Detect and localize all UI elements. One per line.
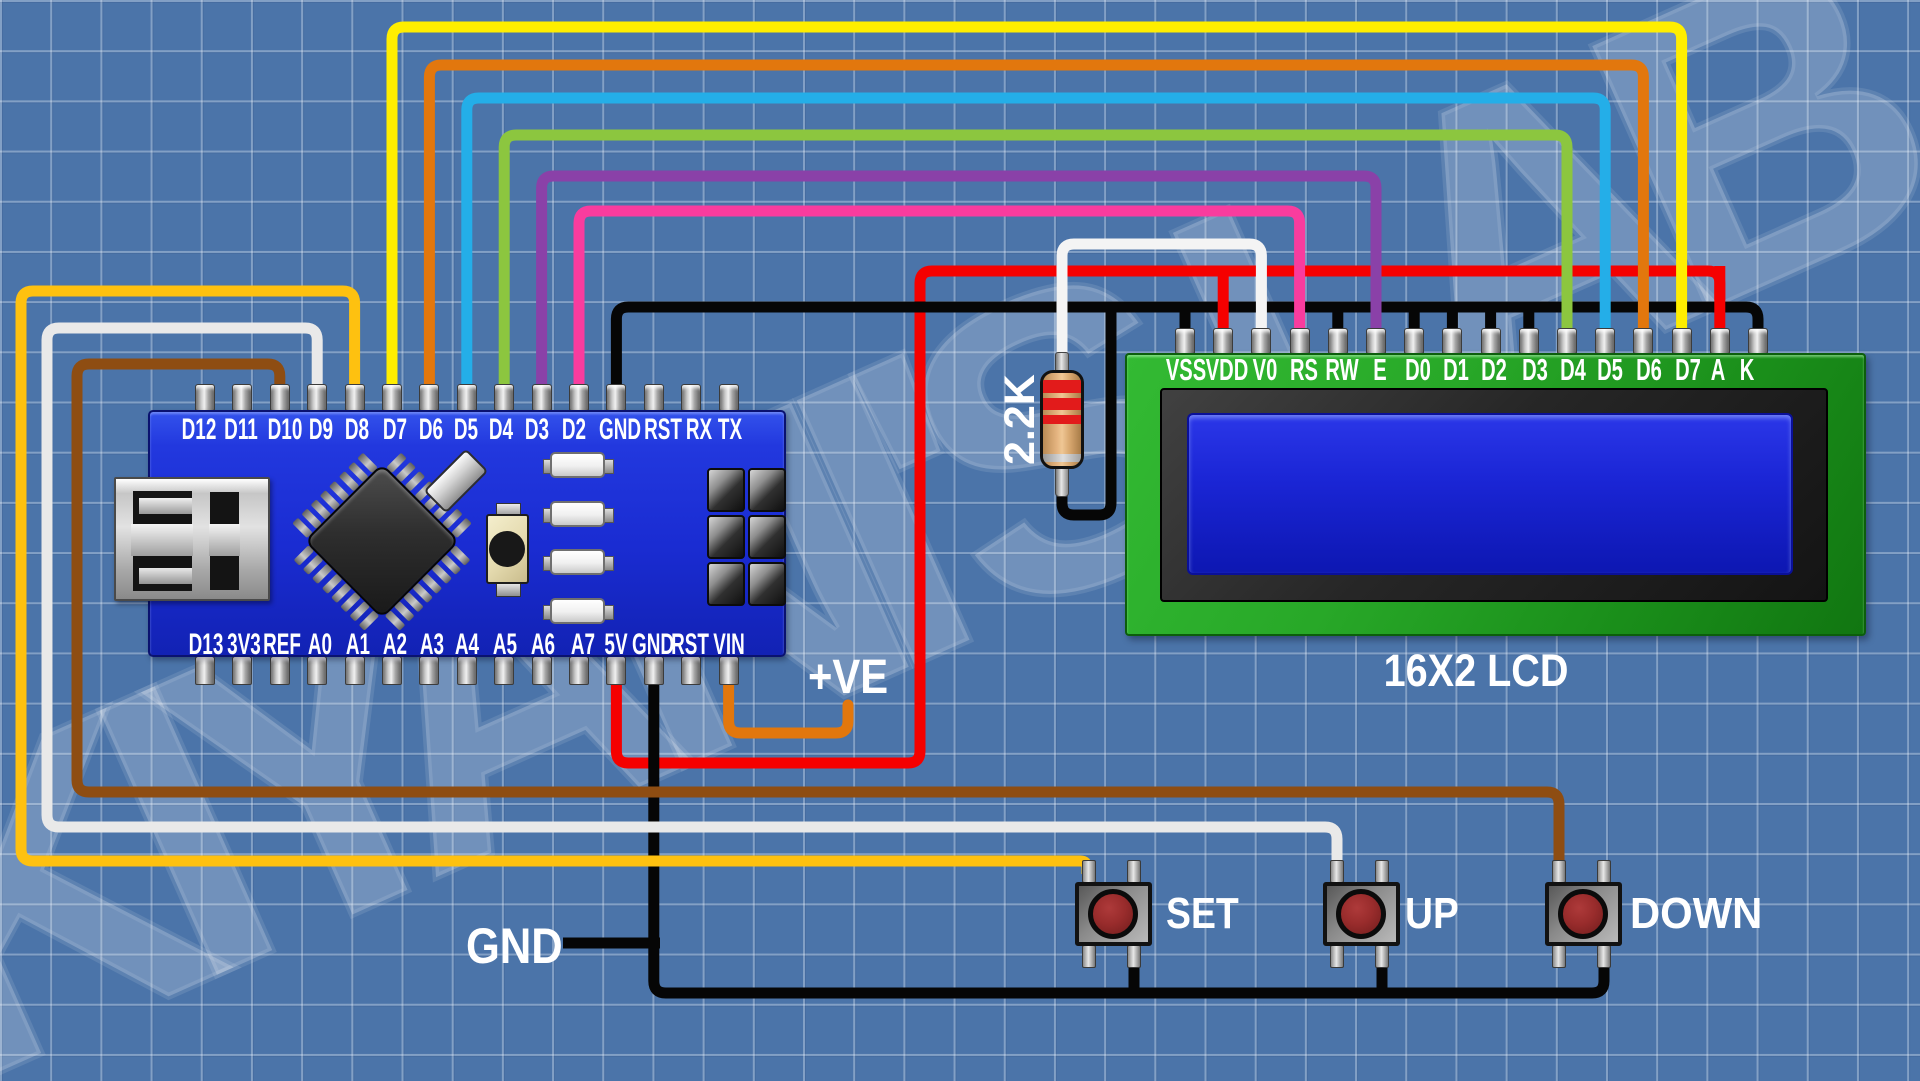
- pin Arduino bottom A1: [345, 656, 365, 685]
- pin label Arduino TX (top row): [705, 413, 755, 447]
- push button DOWN: [1545, 882, 1622, 946]
- Arduino Nano board U1: [148, 410, 786, 657]
- pin label LCD D5: [1584, 352, 1636, 388]
- pin label Arduino GND (top row): [594, 413, 644, 447]
- pin LCD A: [1710, 328, 1730, 354]
- pin label Arduino D2 (top row): [549, 413, 599, 447]
- pin Arduino top D2: [569, 384, 589, 411]
- wire green: Arduino D4 to LCD D4: [504, 135, 1567, 390]
- pin Arduino top D3: [532, 384, 552, 411]
- MCU chip ATmega328 U2: [304, 463, 460, 619]
- capacitor C4: [550, 598, 605, 624]
- pin label LCD K: [1721, 352, 1773, 388]
- pin LCD K: [1748, 328, 1768, 354]
- wire brown: Arduino D10 to DOWN button: [77, 364, 1559, 874]
- pin Arduino bottom VIN: [719, 656, 739, 685]
- wire black stub LCD D2: [1485, 303, 1496, 334]
- wire black stub SET button to GND bus: [1129, 950, 1140, 993]
- pin label Arduino D7 (top row): [369, 413, 419, 447]
- wire white: resistor R1 top to LCD V0: [1062, 244, 1261, 360]
- pin Arduino bottom A7: [569, 656, 589, 685]
- pin LCD RW: [1328, 328, 1348, 354]
- label +VE (power): [808, 650, 888, 705]
- capacitor C1: [550, 452, 605, 478]
- wire red branch to LCD A pin (over black): [1714, 266, 1725, 334]
- wire black stub LCD D0: [1409, 303, 1420, 334]
- pin Arduino top D5: [457, 384, 477, 411]
- pin label LCD D4: [1547, 352, 1599, 388]
- value label 2.2K: [996, 375, 1040, 465]
- pin label LCD D6: [1623, 352, 1675, 388]
- wire purple: Arduino D3 to LCD E: [542, 176, 1376, 390]
- pin Arduino top RX: [681, 384, 701, 411]
- pin LCD D0: [1404, 328, 1424, 354]
- pin label LCD RS: [1278, 352, 1330, 388]
- label GND (ground): [466, 917, 563, 975]
- pin Arduino bottom A6: [532, 656, 552, 685]
- resistor R1 2.2K: [1036, 352, 1088, 497]
- pin Arduino bottom REF: [270, 656, 290, 685]
- pin label Arduino 5V (bottom row): [591, 628, 641, 662]
- pin label Arduino A4 (bottom row): [442, 628, 492, 662]
- pin label LCD E: [1354, 352, 1406, 388]
- wire black stub LCD D3: [1523, 303, 1534, 334]
- pin label LCD V0: [1239, 352, 1291, 388]
- pin label LCD VDD: [1201, 352, 1253, 388]
- wire yellow: Arduino D7 to LCD D7: [392, 27, 1682, 390]
- label 16X2 LCD: [1475, 645, 1477, 697]
- pin LCD D7: [1672, 328, 1692, 354]
- wire red +5V: Arduino 5V pin to LCD VDD and A (under black): [616, 271, 1719, 763]
- pin Arduino bottom GND: [644, 656, 664, 685]
- label DOWN: [1630, 889, 1762, 939]
- pin label LCD RW: [1316, 352, 1368, 388]
- label SET: [1166, 889, 1239, 939]
- capacitor C3: [550, 549, 605, 575]
- USB mini connector J1: [114, 477, 270, 601]
- pin label Arduino D13 (bottom row): [181, 628, 231, 662]
- pin LCD VSS: [1175, 328, 1195, 354]
- wire black GND label stub: [563, 938, 660, 949]
- pin LCD V0: [1251, 328, 1271, 354]
- pin label Arduino D6 (top row): [405, 413, 455, 447]
- pin LCD D1: [1442, 328, 1462, 354]
- pin label Arduino GND (bottom row): [628, 628, 678, 662]
- pin Arduino bottom A5: [494, 656, 514, 685]
- wire black stub LCD VSS: [1180, 303, 1191, 334]
- pin Arduino top D11: [232, 384, 252, 411]
- pin Arduino top D10: [270, 384, 290, 411]
- capacitor C2: [550, 501, 605, 527]
- pin LCD E: [1366, 328, 1386, 354]
- pin label Arduino A7 (bottom row): [558, 628, 608, 662]
- wire black stub LCD RW: [1332, 303, 1343, 334]
- pin label Arduino REF (bottom row): [257, 628, 307, 662]
- pin label LCD D7: [1662, 352, 1714, 388]
- push button UP: [1323, 882, 1400, 946]
- pin label Arduino D10 (top row): [260, 413, 310, 447]
- LCD 16x2 module DS1: [1125, 353, 1866, 636]
- pin Arduino top D7: [382, 384, 402, 411]
- push button SET: [1075, 882, 1152, 946]
- pin Arduino top D12: [195, 384, 215, 411]
- pin label Arduino D9 (top row): [296, 413, 346, 447]
- pin LCD D4: [1557, 328, 1577, 354]
- wire black GND top bus: Arduino GND pin to LCD VSS,RW,D0,D1,D2,D3,K: [616, 307, 1758, 390]
- wire black stub LCD D1: [1447, 303, 1458, 334]
- reset button SW1 on Nano: [486, 514, 529, 584]
- pin label Arduino D11 (top row): [216, 413, 266, 447]
- wire red branch to LCD VDD pin: [1218, 266, 1229, 334]
- pin label Arduino D8 (top row): [332, 413, 382, 447]
- wire orange: Arduino D6 to LCD D6: [429, 65, 1643, 390]
- pin Arduino top GND: [606, 384, 626, 411]
- pin Arduino bottom 5V: [606, 656, 626, 685]
- wire pink: Arduino D2 to LCD RS: [579, 211, 1300, 390]
- pin Arduino bottom A2: [382, 656, 402, 685]
- pin Arduino top TX: [719, 384, 739, 411]
- pin LCD VDD: [1213, 328, 1233, 354]
- pin label Arduino 3V3 (bottom row): [219, 628, 269, 662]
- pin label LCD A: [1692, 352, 1744, 388]
- pin Arduino top D4: [494, 384, 514, 411]
- pin label Arduino A2 (bottom row): [370, 628, 420, 662]
- pin Arduino top D8: [345, 384, 365, 411]
- pin label LCD D2: [1468, 352, 1520, 388]
- pin label Arduino D12 (top row): [174, 413, 224, 447]
- pin label LCD D0: [1392, 352, 1444, 388]
- wire black stub UP button to GND bus: [1377, 950, 1388, 993]
- pin label Arduino A1 (bottom row): [332, 628, 382, 662]
- pin Arduino top D6: [419, 384, 439, 411]
- pin Arduino bottom A4: [457, 656, 477, 685]
- wire cyan: Arduino D5 to LCD D5: [467, 98, 1605, 390]
- wire gold: Arduino D8 loop to SET button: [21, 291, 1087, 874]
- pin label Arduino A6 (bottom row): [518, 628, 568, 662]
- pin label LCD VSS: [1160, 352, 1212, 388]
- pin Arduino bottom D13: [195, 656, 215, 685]
- pin label Arduino RX (top row): [674, 413, 724, 447]
- ICSP header J2 (2x3): [707, 468, 786, 609]
- pin LCD D6: [1633, 328, 1653, 354]
- pin label Arduino RST (bottom row): [665, 628, 715, 662]
- pin label Arduino A5 (bottom row): [480, 628, 530, 662]
- pin label Arduino D5 (top row): [440, 413, 490, 447]
- pin Arduino bottom A0: [307, 656, 327, 685]
- pin label LCD D3: [1509, 352, 1561, 388]
- pin LCD RS: [1290, 328, 1310, 354]
- pin Arduino top RST: [644, 384, 664, 411]
- pin label Arduino A0 (bottom row): [295, 628, 345, 662]
- pin Arduino top D9: [307, 384, 327, 411]
- pin label Arduino D3 (top row): [512, 413, 562, 447]
- wire orange +VE stub from Arduino VIN: [729, 680, 848, 733]
- pin label Arduino VIN (bottom row): [704, 628, 754, 662]
- pin label LCD D1: [1430, 352, 1482, 388]
- pin Arduino bottom A3: [419, 656, 439, 685]
- pin Arduino bottom RST: [681, 656, 701, 685]
- pin LCD D3: [1519, 328, 1539, 354]
- pin LCD D2: [1481, 328, 1501, 354]
- pin LCD D5: [1595, 328, 1615, 354]
- pin Arduino bottom 3V3: [232, 656, 252, 685]
- label UP: [1405, 889, 1459, 939]
- pin label Arduino D4 (top row): [476, 413, 526, 447]
- pin label Arduino RST (top row): [638, 413, 688, 447]
- wire white loop: Arduino D9 to UP button: [47, 328, 1337, 874]
- wire black resistor R1 bottom to GND bus: [1062, 303, 1111, 515]
- wire black GND bottom: Arduino GND pin down, bus to buttons: [654, 680, 1604, 993]
- crystal oscillator Y1: [423, 448, 488, 513]
- pin label Arduino A3 (bottom row): [407, 628, 457, 662]
